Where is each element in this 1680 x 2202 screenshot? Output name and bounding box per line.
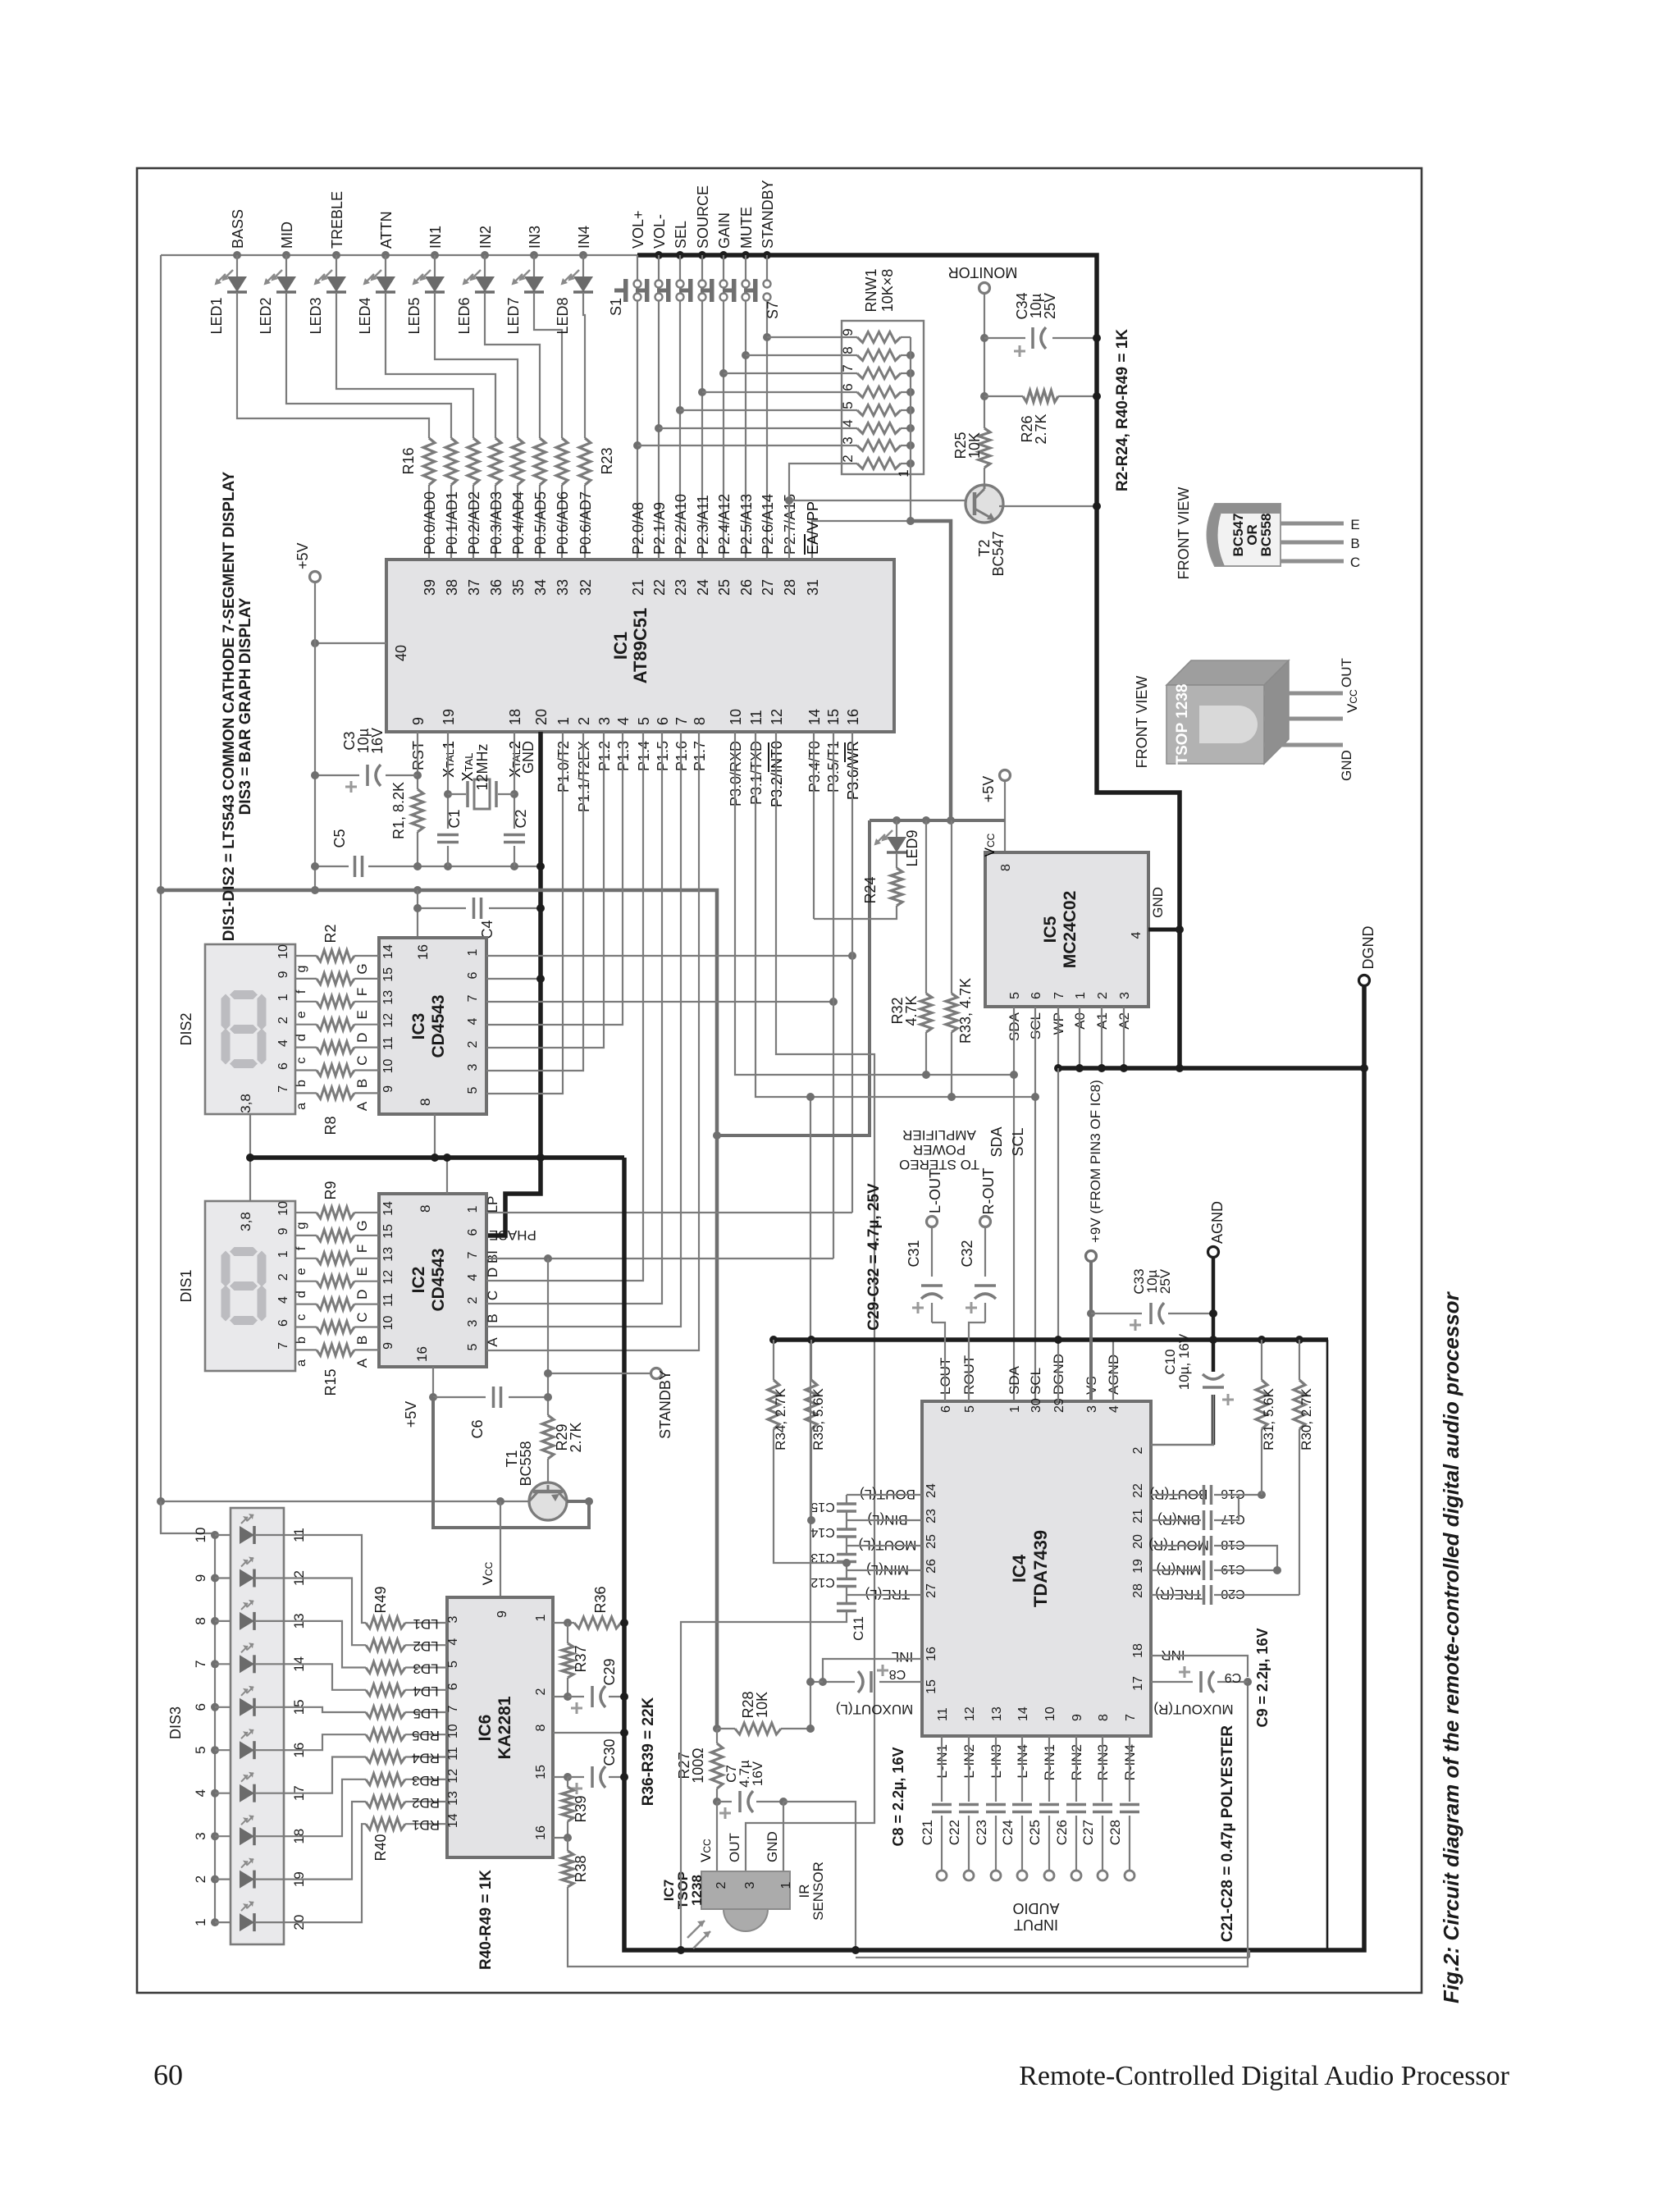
terminal +9V: [1086, 1251, 1097, 1262]
wire P3.2 to IR OUT column: [746, 732, 874, 1871]
wire P3.6 column: [851, 732, 853, 1213]
wire +5V to Vcc rail: [1004, 780, 1006, 852]
svg-text:C8 = 2.2µ, 16V: C8 = 2.2µ, 16V: [890, 1747, 906, 1847]
svg-text:5: 5: [446, 1661, 460, 1668]
svg-text:10K×8: 10K×8: [879, 269, 896, 313]
resistor R11 segment e: [317, 1253, 354, 1264]
wire LED7 to resistor: [534, 292, 562, 438]
svg-text:R2: R2: [322, 924, 339, 943]
svg-text:4: 4: [276, 1296, 290, 1304]
wire IC6 pin8 row: [553, 1732, 624, 1734]
svg-text:16: 16: [415, 944, 431, 960]
svg-text:MONITOR: MONITOR: [948, 264, 1018, 281]
TSOP lens: [1199, 706, 1258, 743]
node DIS common junction: [246, 1154, 254, 1162]
svg-text:6: 6: [1029, 992, 1043, 999]
svg-text:R8: R8: [322, 1116, 339, 1135]
svg-text:D: D: [354, 1033, 370, 1043]
svg-text:TREBLE: TREBLE: [329, 191, 345, 249]
svg-text:10: 10: [381, 1059, 395, 1074]
svg-text:IC2: IC2: [409, 1267, 428, 1294]
+5V rail row: [870, 819, 1005, 822]
svg-text:P0.4/AD4: P0.4/AD4: [510, 491, 527, 555]
svg-text:VOL+: VOL+: [630, 210, 646, 249]
node DIS3 common pin 2: [211, 1875, 219, 1884]
wire R1 to ground row: [417, 832, 418, 866]
svg-text:R40-R49 = 1K: R40-R49 = 1K: [477, 1870, 495, 1970]
wire resistor R18 to IC1 pin 37: [472, 485, 474, 560]
node C7 right (GND IR): [779, 1798, 787, 1806]
resistor R18: [468, 438, 479, 485]
svg-text:S1: S1: [608, 298, 624, 316]
RNW1 resistor element pin 6: [857, 387, 901, 398]
node C30 to black: [620, 1773, 628, 1781]
wire S4 to RNW1 row and IC1 pin 24: [701, 301, 703, 560]
capacitor chain C15-C11: [846, 1495, 847, 1503]
node LED rail junction IN4: [579, 251, 587, 259]
svg-text:1: 1: [466, 1205, 480, 1213]
wire R45 to IC6 pin 7: [405, 1711, 447, 1713]
svg-text:9: 9: [840, 328, 856, 336]
wire LED3 to resistor: [336, 292, 473, 438]
wire input L-IN1: [941, 1736, 943, 1802]
node IC2 pin8 junction: [443, 1154, 451, 1162]
svg-text:GAIN: GAIN: [716, 212, 733, 249]
TO-92 front view (BC547/BC558): [1207, 504, 1281, 566]
svg-text:EA/VPP: EA/VPP: [805, 501, 821, 555]
wire IC2 LP pin1 to P3.4? column: [486, 1212, 852, 1213]
svg-text:R39: R39: [573, 1795, 589, 1822]
LED bar element 9: [240, 1871, 254, 1889]
LED LED2: [285, 255, 287, 276]
node pin40 +5V junction: [311, 639, 319, 647]
svg-text:2: 2: [276, 1016, 290, 1024]
svg-text:SOURCE: SOURCE: [695, 185, 711, 249]
terminal audio input C22: [964, 1871, 974, 1880]
resistor R16: [423, 438, 435, 485]
svg-text:OUT: OUT: [727, 1833, 742, 1862]
wire T1 emitter to +5V (thick): [433, 1397, 589, 1528]
wire IC1 P1 to IC2 BCD input: [486, 732, 699, 1350]
IC IC2 CD4543: [379, 1194, 486, 1367]
svg-text:28: 28: [782, 579, 798, 596]
svg-text:B: B: [485, 1313, 500, 1323]
wire IC6 pin15 row: [553, 1776, 568, 1778]
capacitor C33 10µ 25V (polarized): [1091, 1313, 1142, 1314]
svg-text:VOL-: VOL-: [651, 214, 668, 249]
svg-text:C14: C14: [810, 1525, 834, 1539]
resistor R46: [366, 1684, 405, 1696]
wire R28 column to SCL row region: [810, 1097, 811, 1729]
svg-text:14: 14: [381, 1201, 395, 1216]
node S4 branch: [698, 388, 706, 396]
svg-text:3: 3: [193, 1832, 208, 1839]
node LED rail junction IN3: [530, 251, 538, 259]
wire DIS3 pin 15 to resistor: [293, 1707, 366, 1712]
svg-text:R16: R16: [400, 447, 417, 474]
svg-text:P2.4/A12: P2.4/A12: [716, 494, 733, 555]
svg-text:LD5: LD5: [413, 1706, 438, 1721]
svg-text:3: 3: [466, 1319, 480, 1327]
svg-text:POWER: POWER: [913, 1142, 966, 1158]
svg-text:100Ω: 100Ω: [690, 1747, 706, 1784]
label Vcc (IC6 pin9): [480, 1561, 495, 1585]
IC IC7 TSOP1238 body: [701, 1871, 790, 1909]
svg-text:R30, 2.7K: R30, 2.7K: [1299, 1388, 1314, 1450]
svg-text:10K: 10K: [966, 432, 983, 459]
svg-text:RD2: RD2: [412, 1795, 440, 1811]
wire ground row drop: [1326, 1340, 1329, 1950]
wire VS column (thick): [1089, 1262, 1093, 1401]
svg-text:6: 6: [193, 1703, 208, 1711]
capacitor C31 (polarized): [931, 1227, 933, 1277]
svg-text:IC6: IC6: [476, 1715, 495, 1742]
node +5V feed: [947, 816, 955, 825]
svg-text:27: 27: [924, 1583, 938, 1598]
svg-text:10K: 10K: [754, 1692, 770, 1718]
resistor R14 segment b: [317, 1322, 354, 1333]
capacitor C4 row: [418, 907, 466, 909]
svg-text:C9 = 2.2µ, 16V: C9 = 2.2µ, 16V: [1254, 1629, 1271, 1728]
DIS3 pin 6: [215, 1706, 231, 1708]
svg-text:+5V: +5V: [294, 542, 311, 569]
IC IC5 MC24C02: [985, 852, 1148, 1007]
resistor R29 2.7K: [542, 1415, 554, 1459]
wire BI column to T1: [547, 1259, 549, 1415]
node ground row junctions: [311, 862, 319, 870]
wire GND pin20 (thick black): [486, 732, 541, 1236]
wire DIS3 pin 11 to resistor: [293, 1535, 366, 1623]
wire segment b to IC3: [354, 1069, 379, 1071]
svg-text:G: G: [354, 1220, 370, 1231]
svg-text:7: 7: [276, 1342, 290, 1350]
node IC5 GND to black rail: [1176, 925, 1184, 934]
wire resistor R20 to IC1 pin 35: [517, 485, 518, 560]
RNW1 resistor element pin 5: [857, 405, 901, 416]
wire input R-IN4: [1129, 1736, 1130, 1802]
svg-text:FRONT VIEW: FRONT VIEW: [1134, 676, 1150, 769]
svg-text:E: E: [1350, 517, 1359, 532]
wire R47 to IC6 pin 5: [405, 1666, 447, 1668]
svg-text:C11: C11: [851, 1616, 866, 1641]
svg-text:4: 4: [615, 717, 632, 725]
svg-text:C5: C5: [331, 829, 348, 847]
node RNW1 common row 2: [906, 459, 915, 468]
svg-text:16V: 16V: [750, 1761, 765, 1786]
svg-text:16: 16: [534, 1825, 548, 1840]
switch S5: [723, 255, 724, 280]
svg-text:4.7K: 4.7K: [903, 995, 920, 1026]
resistor R36: [574, 1617, 621, 1629]
switch S3: [679, 255, 681, 280]
wire INR hook: [1151, 1656, 1248, 1677]
wire R24 to P3.4 column: [814, 906, 897, 919]
node DGND riser: [1360, 1064, 1368, 1072]
svg-text:AMPLIFIER: AMPLIFIER: [902, 1127, 976, 1143]
node LED rail junction ATTN: [381, 251, 390, 259]
resistor R7 segment b: [317, 1065, 354, 1076]
svg-text:2: 2: [193, 1875, 208, 1883]
wire SDA bus: [735, 732, 1014, 1075]
svg-text:15: 15: [381, 1224, 395, 1239]
svg-text:P0.6/AD7: P0.6/AD7: [577, 491, 594, 555]
svg-text:LD3: LD3: [413, 1661, 438, 1677]
svg-text:R35, 5.6K: R35, 5.6K: [810, 1388, 826, 1450]
svg-text:P0.6/AD6: P0.6/AD6: [555, 491, 571, 555]
wire resistor R23 to IC1 pin 32: [584, 485, 586, 560]
wire R41 to IC6 pin 13: [405, 1801, 447, 1802]
DIS3 pin 11: [284, 1534, 293, 1536]
terminal R-OUT: [980, 1217, 991, 1227]
wire C31 to LOUT pin6: [932, 1323, 945, 1401]
wire BIN(L) row: [847, 1519, 922, 1521]
DIS3 pin 20: [284, 1921, 293, 1923]
svg-text:1: 1: [896, 469, 911, 477]
svg-text:IC5: IC5: [1041, 916, 1060, 943]
svg-text:3: 3: [743, 1881, 757, 1889]
svg-text:2.7K: 2.7K: [1033, 413, 1049, 444]
capacitor C26: [1066, 1803, 1086, 1807]
wire AGND column (black): [1212, 1258, 1216, 1445]
node R32 tap: [922, 816, 930, 825]
svg-text:C17: C17: [1221, 1512, 1244, 1526]
node RNW1 common row 3: [906, 441, 915, 450]
pin 31 EA/VPP wire: [812, 521, 911, 560]
resistor R40: [366, 1818, 405, 1830]
node SDA pullup R32: [922, 1071, 930, 1079]
svg-text:14: 14: [446, 1813, 460, 1828]
svg-text:25: 25: [924, 1534, 938, 1549]
node S1 branch: [633, 441, 641, 450]
svg-text:21: 21: [1131, 1509, 1145, 1524]
LED LED4: [385, 255, 386, 276]
svg-text:C31: C31: [906, 1240, 922, 1267]
TSOP 1238 front view: [1166, 660, 1289, 685]
DIS3 pin 19: [284, 1879, 293, 1880]
svg-text:C12: C12: [810, 1575, 834, 1589]
svg-text:6: 6: [840, 383, 856, 391]
svg-text:C32: C32: [959, 1240, 975, 1267]
switch S4: [701, 255, 703, 280]
DIS3 pin 8: [215, 1620, 231, 1622]
svg-text:R40: R40: [372, 1834, 389, 1861]
terminal audio input C27: [1098, 1871, 1107, 1880]
node C33 tap on VS: [1087, 1309, 1095, 1318]
switch S2: [658, 255, 660, 280]
svg-text:RD3: RD3: [412, 1773, 440, 1789]
LED LED6: [484, 255, 486, 276]
svg-text:2: 2: [840, 455, 856, 462]
svg-text:FRONT VIEW: FRONT VIEW: [1176, 487, 1192, 580]
DIS3 pin 9: [215, 1577, 231, 1578]
svg-text:C15: C15: [810, 1500, 834, 1514]
node switch rail junction S3: [676, 251, 684, 259]
svg-text:C23: C23: [974, 1820, 989, 1845]
display DIS2 (LTS543): [205, 944, 295, 1114]
svg-text:f: f: [294, 989, 308, 994]
svg-text:e: e: [294, 1011, 308, 1018]
svg-text:IN1: IN1: [427, 226, 444, 249]
svg-text:14: 14: [1016, 1706, 1030, 1721]
svg-text:IC3: IC3: [409, 1013, 428, 1040]
LED bar element 8: [240, 1827, 254, 1845]
wire MIN(L) row: [847, 1569, 922, 1571]
svg-text:8: 8: [418, 1205, 433, 1213]
resistor R20: [512, 438, 523, 485]
svg-text:D: D: [485, 1268, 500, 1277]
svg-text:3,8: 3,8: [238, 1094, 253, 1113]
svg-text:10: 10: [193, 1528, 208, 1543]
node +5V IC2 junction: [429, 1393, 437, 1401]
svg-text:C22: C22: [947, 1820, 962, 1845]
DIS3 pin 18: [284, 1835, 293, 1837]
svg-text:LP: LP: [485, 1196, 500, 1213]
DIS3 pin 7: [215, 1663, 231, 1665]
node DIS3 common pin 5: [211, 1746, 219, 1754]
terminal DGND: [1359, 975, 1370, 986]
svg-text:6: 6: [939, 1405, 953, 1413]
wire resistor R22 to IC1 pin 33: [561, 485, 563, 560]
svg-text:OUT: OUT: [1339, 658, 1354, 688]
resistor R19: [490, 438, 501, 485]
svg-text:1: 1: [193, 1918, 208, 1926]
svg-text:MUXOUT(L): MUXOUT(L): [836, 1702, 913, 1717]
node crystal junction XTAL1: [444, 790, 452, 798]
svg-text:LED3: LED3: [308, 297, 324, 334]
svg-text:5: 5: [840, 401, 856, 409]
node black rail corner: [536, 1154, 545, 1162]
node LED rail junction IN2: [481, 251, 489, 259]
wire DIS3 pin 13 to resistor: [293, 1621, 366, 1668]
svg-text:12: 12: [381, 1013, 395, 1028]
svg-text:2: 2: [534, 1688, 548, 1695]
svg-text:LED8: LED8: [555, 297, 571, 334]
wire C16 to R31: [1214, 1494, 1262, 1496]
svg-text:7: 7: [446, 1705, 460, 1712]
svg-text:E: E: [354, 1267, 370, 1276]
wire MIN(R) row: [1151, 1569, 1201, 1571]
svg-text:BC547: BC547: [990, 531, 1007, 576]
svg-text:C16: C16: [1221, 1487, 1244, 1501]
wire input L-IN2: [968, 1736, 970, 1802]
resistor R31, 5.6K: [1258, 1336, 1266, 1344]
wire C11 return: [681, 1612, 847, 1950]
svg-text:22: 22: [1131, 1483, 1145, 1498]
svg-text:g: g: [294, 1222, 308, 1230]
wire segment g to IC3: [354, 955, 379, 957]
node R28 column junction: [806, 1093, 815, 1101]
node switch rail junction S6: [742, 251, 750, 259]
wire IC3 Vcc drop: [417, 890, 418, 938]
resistor R12 segment d: [317, 1276, 354, 1287]
svg-text:R49: R49: [372, 1586, 389, 1613]
resistor R13 segment c: [317, 1299, 354, 1310]
svg-text:C: C: [1350, 555, 1360, 570]
svg-text:3: 3: [1118, 992, 1132, 999]
svg-text:13: 13: [446, 1791, 460, 1806]
node RNW1 common row 4: [906, 424, 915, 432]
svg-text:29: 29: [1052, 1398, 1066, 1413]
resistor network RNW1 box: [842, 321, 924, 474]
wire IR GND to black loop: [783, 1802, 856, 1950]
DIS3 pin 4: [215, 1793, 231, 1794]
label EA/VPP (overline EA): [805, 501, 821, 555]
svg-text:9: 9: [410, 717, 427, 725]
svg-text:P0.2/AD2: P0.2/AD2: [466, 491, 482, 555]
resistor R27 100Ω: [716, 1729, 718, 1743]
wire segment b to IC2: [354, 1326, 379, 1327]
node RNW1 common to EA/VPP and +5V feed: [906, 517, 915, 525]
svg-text:P2.1/A9: P2.1/A9: [651, 502, 668, 555]
svg-text:C9: C9: [1225, 1670, 1242, 1684]
LED bar element 7: [240, 1784, 254, 1802]
svg-text:BASS: BASS: [230, 209, 246, 249]
svg-text:BC558: BC558: [1258, 514, 1274, 557]
svg-text:34: 34: [532, 579, 549, 596]
RNW1 resistor element pin 4: [857, 423, 901, 434]
wire STANDBY: [548, 1373, 651, 1374]
svg-text:C19: C19: [1221, 1562, 1244, 1576]
resistor R35, 5.6K: [807, 1336, 815, 1344]
wire XTAL2 column: [514, 732, 515, 829]
RNW1 resistor element pin 3: [857, 441, 901, 451]
wire IC1 P1 to IC2 BCD input: [486, 732, 643, 1281]
node PH to black rail: [536, 975, 545, 983]
svg-text:1: 1: [1074, 992, 1088, 999]
resistor R24: [896, 852, 897, 868]
IR arrows: [687, 1921, 710, 1948]
svg-text:13: 13: [990, 1706, 1004, 1721]
svg-text:13: 13: [381, 990, 395, 1005]
wire C34 row: [984, 337, 1025, 339]
terminal audio input C23: [991, 1871, 1001, 1880]
wire +5V feed from EA/VPP node (thick): [911, 521, 951, 820]
svg-text:BI: BI: [485, 1250, 500, 1263]
svg-text:18: 18: [1131, 1643, 1145, 1658]
capacitor C34: [1031, 327, 1034, 349]
TSOP pins: [1264, 692, 1343, 696]
node IC5 gnd drop: [1176, 1064, 1184, 1072]
wire LED1 to resistor: [237, 292, 429, 438]
DIS3 pin 5: [215, 1749, 231, 1751]
wire IC6 pin2 row: [553, 1696, 568, 1697]
node LED rail junction IN1: [431, 251, 439, 259]
svg-text:4: 4: [840, 419, 856, 427]
resistor R10 segment f: [317, 1230, 354, 1241]
svg-text:10: 10: [276, 1201, 290, 1216]
svg-text:5: 5: [466, 1086, 480, 1094]
svg-text:G: G: [354, 963, 370, 974]
svg-text:SCL: SCL: [1010, 1127, 1026, 1156]
DIS3 pin 2: [215, 1879, 231, 1880]
svg-text:+9V (FROM PIN3 OF IC8): +9V (FROM PIN3 OF IC8): [1088, 1080, 1103, 1243]
svg-text:P0.5/AD5: P0.5/AD5: [532, 491, 549, 555]
node S2 branch: [655, 424, 663, 432]
wire +5V LED rail: [161, 254, 637, 256]
wire R25 to T2: [984, 468, 985, 486]
svg-text:7: 7: [673, 717, 690, 725]
wire XTAL1 column: [447, 732, 449, 829]
svg-text:8: 8: [840, 346, 856, 354]
stub DIS2 common to ground row: [249, 1114, 251, 1158]
svg-text:AT89C51: AT89C51: [630, 608, 651, 684]
wire R44 to IC6 pin 10: [405, 1734, 447, 1735]
svg-text:IN4: IN4: [576, 226, 592, 249]
svg-text:7: 7: [840, 364, 856, 372]
svg-text:14: 14: [381, 944, 395, 959]
node R28 right: [806, 1725, 815, 1733]
node T1 collector junction: [496, 1497, 504, 1505]
